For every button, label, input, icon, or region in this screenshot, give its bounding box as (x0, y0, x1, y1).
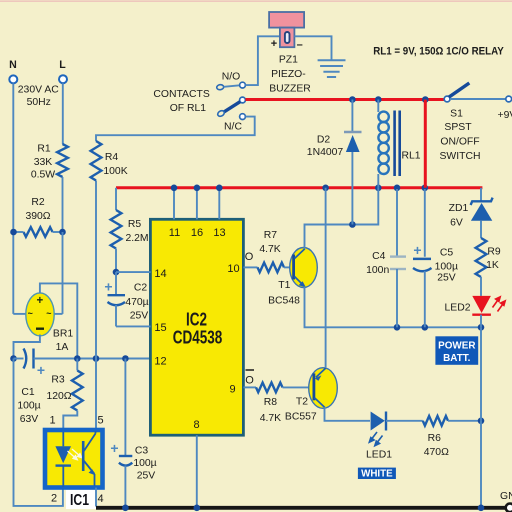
resistor R8 (256, 383, 283, 393)
svg-text:C5: C5 (440, 248, 454, 259)
svg-text:100µ: 100µ (17, 401, 40, 412)
svg-text:390Ω: 390Ω (25, 211, 50, 222)
svg-text:13: 13 (213, 227, 225, 239)
svg-text:9: 9 (229, 384, 235, 396)
svg-text:16: 16 (191, 227, 203, 239)
svg-text:1: 1 (49, 415, 55, 427)
svg-text:N: N (9, 59, 17, 71)
svg-text:14: 14 (154, 268, 166, 280)
svg-text:470µ: 470µ (125, 297, 148, 308)
wire pin10 (243, 266, 257, 268)
svg-text:BUZZER: BUZZER (269, 84, 311, 95)
resistor R7 (258, 263, 285, 273)
svg-text:S1: S1 (450, 109, 463, 120)
svg-text:+: + (413, 242, 421, 258)
junction C1 left (10, 355, 17, 362)
svg-text:R1: R1 (37, 144, 51, 155)
svg-text:100n: 100n (366, 265, 389, 276)
resistor R6 (423, 416, 448, 426)
wire R8 to T2 base (283, 386, 314, 388)
wire BR1 plus to rail (40, 283, 77, 358)
junction pin8 ground (194, 505, 201, 512)
wire DC rail (77, 358, 150, 360)
red bus relay (245, 98, 447, 101)
svg-text:10: 10 (227, 263, 239, 275)
optocoupler IC1 box (45, 430, 103, 488)
svg-text:63V: 63V (20, 414, 39, 425)
resistor R9 (476, 238, 487, 277)
svg-text:470Ω: 470Ω (424, 447, 449, 458)
wire T2 collector (325, 407, 371, 421)
svg-text:11: 11 (169, 227, 180, 239)
svg-text:LED2: LED2 (445, 302, 471, 313)
svg-text:12: 12 (154, 356, 166, 368)
resistor R4 (91, 141, 102, 181)
svg-text:ZD1: ZD1 (449, 203, 469, 214)
junction pin11 (171, 185, 178, 192)
wire pin8 to ground (196, 435, 198, 506)
svg-text:~: ~ (46, 309, 51, 319)
capacitor C5 (424, 189, 426, 257)
IC1 phototransistor (82, 441, 85, 471)
svg-text:BR1: BR1 (53, 329, 73, 340)
junction pin14 (113, 269, 120, 276)
junction ground right (478, 505, 485, 512)
IC2 CD4538 box (150, 219, 243, 435)
junction R2 left (10, 229, 17, 236)
junction C3 top (122, 355, 129, 362)
capacitor C4 (396, 189, 398, 257)
resistor R1 (57, 144, 68, 177)
svg-text:+: + (37, 362, 45, 378)
node L terminal (59, 75, 67, 83)
wire R7 to T1 base (284, 266, 293, 268)
bridge rectifier BR1 (26, 293, 54, 336)
junction red vertical bus (422, 96, 429, 103)
junction D2 anode (349, 221, 356, 228)
label box POWER BATT (435, 336, 478, 365)
svg-text:+9V: +9V (498, 110, 512, 121)
junction C5 bus (422, 185, 429, 192)
capacitor C1 (14, 358, 24, 360)
svg-text:LED1: LED1 (366, 450, 392, 461)
N/O fixed contact (216, 84, 224, 90)
junction RL1 bus (375, 96, 382, 103)
svg-text:BC548: BC548 (268, 296, 300, 307)
svg-text:POWER: POWER (438, 340, 475, 351)
junction RL1 bus2 (375, 185, 382, 192)
junction C3 ground (122, 505, 129, 512)
red wire vertical (424, 100, 427, 188)
junction R6 LED2 line (478, 418, 485, 425)
wire C1 left down (14, 359, 63, 506)
svg-text:100K: 100K (103, 166, 127, 177)
wire R9 to LED2 (480, 277, 482, 296)
svg-text:50Hz: 50Hz (27, 97, 51, 108)
wire BR1 minus (14, 335, 40, 359)
svg-text:T2: T2 (296, 396, 308, 407)
svg-text:D2: D2 (317, 135, 331, 146)
svg-text:R9: R9 (487, 247, 501, 258)
IC1 internal LED (62, 432, 64, 446)
svg-text:1N4007: 1N4007 (307, 147, 344, 158)
svg-text:–: – (297, 39, 303, 51)
svg-text:120Ω: 120Ω (46, 391, 71, 402)
capacitor C2 (115, 272, 117, 295)
junction C4 bus (394, 185, 401, 192)
transistor T1 (290, 248, 318, 288)
svg-text:ON/OFF: ON/OFF (440, 137, 479, 148)
svg-text:L: L (59, 59, 66, 71)
svg-text:SWITCH: SWITCH (440, 151, 481, 162)
wire pin16 (196, 189, 198, 219)
svg-text:GND: GND (500, 491, 512, 502)
svg-text:4.7K: 4.7K (259, 244, 280, 255)
svg-text:WHITE: WHITE (361, 468, 393, 479)
svg-text:CONTACTS: CONTACTS (153, 89, 209, 100)
svg-text:R5: R5 (128, 219, 142, 230)
svg-text:RL1: RL1 (401, 151, 420, 162)
svg-text:100µ: 100µ (133, 458, 156, 469)
wire N/C to R4 (96, 117, 255, 141)
red bus 9V switched (116, 186, 482, 189)
junction T2 emitter bus (322, 185, 329, 192)
junction C4 bottom (394, 324, 401, 331)
junction pin13 (216, 185, 223, 192)
transistor T2 (309, 368, 338, 409)
svg-text:BC557: BC557 (285, 412, 317, 423)
junction R4-pin5 (93, 355, 100, 362)
svg-text:R3: R3 (51, 375, 65, 386)
svg-text:2: 2 (51, 493, 57, 505)
wire R1 to R2 junction (62, 177, 64, 232)
svg-text:+: + (36, 295, 43, 307)
wire bus to ZD1 (480, 188, 482, 202)
ground bus (96, 506, 506, 510)
svg-text:OF RL1: OF RL1 (170, 103, 207, 114)
capacitor C3 (124, 359, 126, 457)
top border artifact (0, 0, 512, 2)
svg-text:N/C: N/C (224, 122, 242, 133)
relay moving arm (223, 102, 240, 113)
wire R4 line down to IC1 pin5 (95, 181, 97, 431)
label box WHITE (358, 468, 396, 479)
relay common contact (240, 97, 246, 103)
svg-text:O: O (245, 375, 254, 387)
svg-text:8: 8 (193, 419, 199, 431)
wire pin15 (116, 325, 151, 327)
wire R6 to LED2 line (448, 420, 481, 422)
svg-text:RL1 = 9V, 150Ω 1C/O RELAY: RL1 = 9V, 150Ω 1C/O RELAY (373, 46, 504, 58)
svg-text:R4: R4 (105, 152, 119, 163)
wire bus to R5 (115, 188, 117, 210)
wire N/O to piezo (245, 36, 280, 85)
svg-text:25V: 25V (437, 272, 456, 283)
svg-text:+: + (271, 38, 277, 50)
junction D2 bus (349, 96, 356, 103)
wire T1 collector (305, 188, 379, 249)
ground symbol piezo (318, 60, 346, 77)
wire T2 emitter to bus (325, 188, 327, 367)
ground terminal (506, 504, 512, 512)
wire N vertical (12, 83, 14, 314)
svg-text:2.2M: 2.2M (125, 233, 148, 244)
svg-text:15: 15 (154, 322, 166, 334)
LED2 light arrows (493, 297, 506, 312)
svg-text:6V: 6V (450, 218, 463, 229)
relay coil RL1 (377, 100, 379, 113)
LED1 light arrows (369, 432, 382, 446)
svg-text:CD4538: CD4538 (173, 328, 223, 349)
zener ZD1 (471, 198, 493, 205)
svg-text:R8: R8 (264, 397, 278, 408)
wire R3 to IC1 pin1 (63, 411, 77, 431)
svg-text:IC1: IC1 (70, 490, 89, 508)
IC1 label box (66, 490, 97, 509)
wire L to R1 (62, 83, 64, 144)
svg-text:1K: 1K (486, 260, 499, 271)
junction R2 right (59, 229, 66, 236)
svg-text:C4: C4 (372, 251, 386, 262)
junction C5 bottom (422, 324, 429, 331)
svg-text:0.5W: 0.5W (31, 170, 55, 181)
svg-text:C1: C1 (21, 387, 35, 398)
LED2 (472, 296, 491, 313)
svg-text:1A: 1A (56, 342, 69, 353)
svg-text:BATT.: BATT. (443, 353, 470, 364)
wire pin14 (116, 271, 151, 273)
svg-text:~: ~ (28, 309, 33, 319)
svg-text:R6: R6 (428, 433, 442, 444)
svg-text:C3: C3 (135, 446, 149, 457)
wire pin9 (243, 386, 256, 388)
wire pin13 (218, 189, 220, 219)
resistor R2 (24, 227, 53, 237)
svg-text:230V AC: 230V AC (18, 85, 60, 96)
svg-text:33K: 33K (34, 157, 53, 168)
junction R3 top (74, 355, 81, 362)
resistor R5 (111, 210, 122, 249)
N/C contact (240, 114, 246, 120)
svg-text:25V: 25V (130, 311, 149, 322)
resistor R3 (76, 359, 78, 371)
wire LED2 line down (480, 327, 482, 421)
svg-text:N/O: N/O (222, 72, 240, 83)
svg-text:PIEZO-: PIEZO- (271, 69, 306, 80)
svg-text:R7: R7 (264, 230, 278, 241)
svg-text:C2: C2 (134, 283, 148, 294)
svg-text:25V: 25V (137, 471, 156, 482)
LED1 (371, 412, 385, 431)
junction LED2 line (478, 324, 485, 331)
svg-text:PZ1: PZ1 (279, 54, 298, 65)
node N terminal (9, 75, 17, 83)
wire piezo right to ground symbol (294, 36, 331, 59)
svg-text:R2: R2 (31, 197, 45, 208)
svg-text:5: 5 (97, 415, 103, 427)
svg-text:4: 4 (97, 493, 103, 505)
switch S1 (444, 96, 450, 102)
svg-text:+: + (110, 440, 118, 456)
wire pin11 (173, 189, 175, 219)
wire T1 emitter (305, 287, 482, 328)
svg-text:T1: T1 (278, 280, 290, 291)
svg-text:SPST: SPST (444, 122, 472, 133)
wire L down to BR1 (62, 232, 64, 314)
svg-text:100µ: 100µ (435, 262, 458, 273)
piezo buzzer PZ1 (269, 12, 304, 28)
junction pin16 (194, 185, 201, 192)
svg-text:O: O (245, 251, 254, 263)
svg-text:+: + (104, 279, 112, 295)
IC1 LED light arrows (68, 449, 82, 460)
svg-text:4.7K: 4.7K (260, 413, 281, 424)
wire R5 to junction (115, 249, 117, 273)
wire IC1 pin4 to ground (95, 488, 97, 507)
diode D2 (351, 100, 353, 133)
